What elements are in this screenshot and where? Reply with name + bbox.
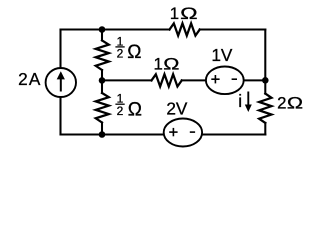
label ½Ω (upper resistor) [115,34,141,63]
label 1Ω (middle resistor) [154,55,180,74]
label ½Ω (lower resistor) [115,92,142,121]
svg-text:2: 2 [117,47,124,61]
current source 2A [46,68,76,97]
node middle junction [99,77,106,84]
wire top horizontal right of R-top [200,28,266,30]
svg-text:Ω: Ω [127,42,141,63]
wire middle column bottom stub [101,123,103,135]
voltage source 1V [206,67,244,95]
resistor ½Ω lower [96,93,109,123]
svg-text:Ω: Ω [163,55,179,74]
svg-text:2A: 2A [18,69,41,89]
voltage source 2V [164,119,202,147]
resistor ½Ω upper [96,40,109,70]
svg-text:i: i [238,91,242,111]
svg-text:Ω: Ω [287,93,303,112]
svg-text:2: 2 [277,93,286,112]
resistor 1Ω middle [152,74,182,86]
svg-text:2: 2 [117,104,124,118]
wire top horizontal left of R-top [61,28,170,30]
current arrow i [245,92,252,113]
wire middle column between resistors [101,70,103,93]
wire bottom horizontal [61,133,266,135]
svg-text:Ω: Ω [180,4,198,23]
label 2Ω [277,93,303,112]
svg-text:1V: 1V [211,45,233,65]
wire right vertical upper [264,30,266,94]
wire left vertical [59,30,61,135]
svg-text:1: 1 [170,4,179,23]
wire middle column top stub [101,30,103,41]
svg-text:2V: 2V [166,99,188,119]
node bottom-middle junction [99,131,106,138]
node right junction [262,77,269,84]
wire middle branch right of R-mid [182,79,266,81]
wire right vertical lower [264,123,266,135]
resistor 1Ω top [170,23,200,35]
svg-text:Ω: Ω [128,100,142,121]
svg-text:1: 1 [154,55,163,74]
label 1Ω (top resistor) [170,4,198,23]
node top-middle junction [99,26,106,33]
wire middle branch left of R-mid [102,79,152,81]
resistor 2Ω right [259,94,271,123]
